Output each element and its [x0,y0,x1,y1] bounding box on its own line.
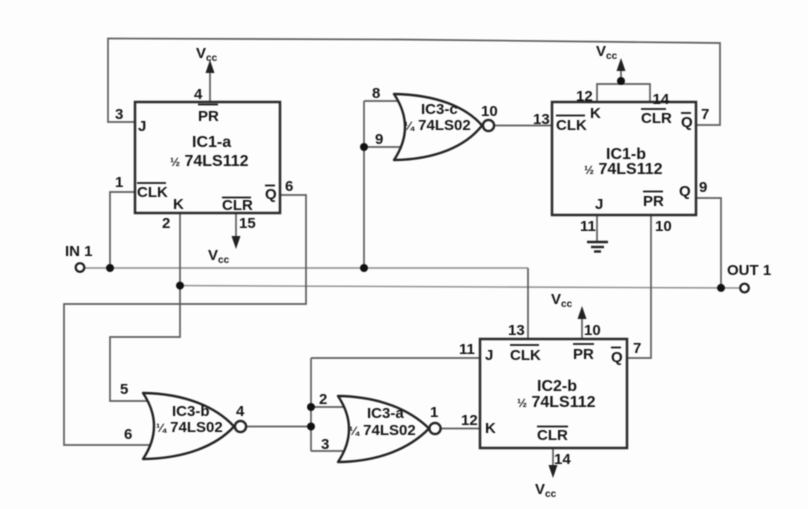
svg-text:J: J [485,347,493,364]
svg-text:½ 74LS112: ½ 74LS112 [170,153,249,170]
svg-text:12: 12 [576,88,593,105]
svg-text:¼ 74LS02: ¼ 74LS02 [404,117,471,134]
svg-text:9: 9 [375,131,383,148]
svg-text:11: 11 [459,341,475,358]
svg-text:IC3-a: IC3-a [367,405,404,422]
svg-text:IC1-a: IC1-a [192,134,231,151]
svg-text:10: 10 [655,218,672,235]
svg-text:CLR: CLR [641,110,672,127]
svg-text:14: 14 [653,91,670,108]
svg-text:PR: PR [198,108,219,125]
svg-text:13: 13 [508,322,525,339]
svg-text:10: 10 [481,103,498,120]
svg-text:Q: Q [679,183,691,200]
svg-text:14: 14 [554,451,571,468]
svg-text:6: 6 [124,426,132,443]
svg-text:IN 1: IN 1 [65,243,93,260]
svg-text:OUT 1: OUT 1 [727,262,771,279]
svg-text:1: 1 [115,174,123,191]
svg-text:9: 9 [699,179,707,196]
svg-text:CLK: CLK [510,347,541,364]
svg-text:6: 6 [285,178,293,195]
svg-text:IC2-b: IC2-b [537,378,577,395]
svg-text:K: K [590,105,601,122]
svg-text:Q: Q [611,349,623,366]
svg-text:PR: PR [643,193,664,210]
svg-text:12: 12 [461,412,478,429]
svg-text:7: 7 [701,106,709,123]
svg-text:4: 4 [194,86,203,103]
svg-text:CLK: CLK [137,184,168,201]
svg-text:CLR: CLR [537,427,568,444]
svg-text:CLR: CLR [222,197,253,214]
svg-text:15: 15 [239,215,256,232]
svg-text:2: 2 [162,215,170,232]
svg-text:Q: Q [681,114,693,131]
svg-text:K: K [173,196,184,213]
svg-text:4: 4 [236,403,245,420]
svg-text:2: 2 [319,391,327,408]
svg-text:IC3-c: IC3-c [421,101,458,118]
svg-text:IC3-b: IC3-b [172,403,210,420]
svg-text:J: J [595,196,603,213]
svg-text:J: J [138,118,146,135]
svg-text:13: 13 [533,111,550,128]
svg-text:PR: PR [573,346,594,363]
svg-text:¼ 74LS02: ¼ 74LS02 [156,419,223,436]
svg-text:3: 3 [321,436,329,453]
svg-text:CLK: CLK [556,117,587,134]
svg-text:3: 3 [115,106,123,123]
svg-text:K: K [485,420,496,437]
svg-text:10: 10 [584,322,601,339]
svg-text:¼ 74LS02: ¼ 74LS02 [349,422,416,439]
svg-text:7: 7 [633,340,641,357]
svg-text:11: 11 [580,218,596,235]
svg-text:Q: Q [265,186,277,203]
svg-text:8: 8 [372,85,380,102]
svg-text:½ 74LS112: ½ 74LS112 [584,161,663,178]
svg-text:5: 5 [120,381,128,398]
svg-text:1: 1 [430,404,438,421]
svg-text:½ 74LS112: ½ 74LS112 [517,394,596,411]
